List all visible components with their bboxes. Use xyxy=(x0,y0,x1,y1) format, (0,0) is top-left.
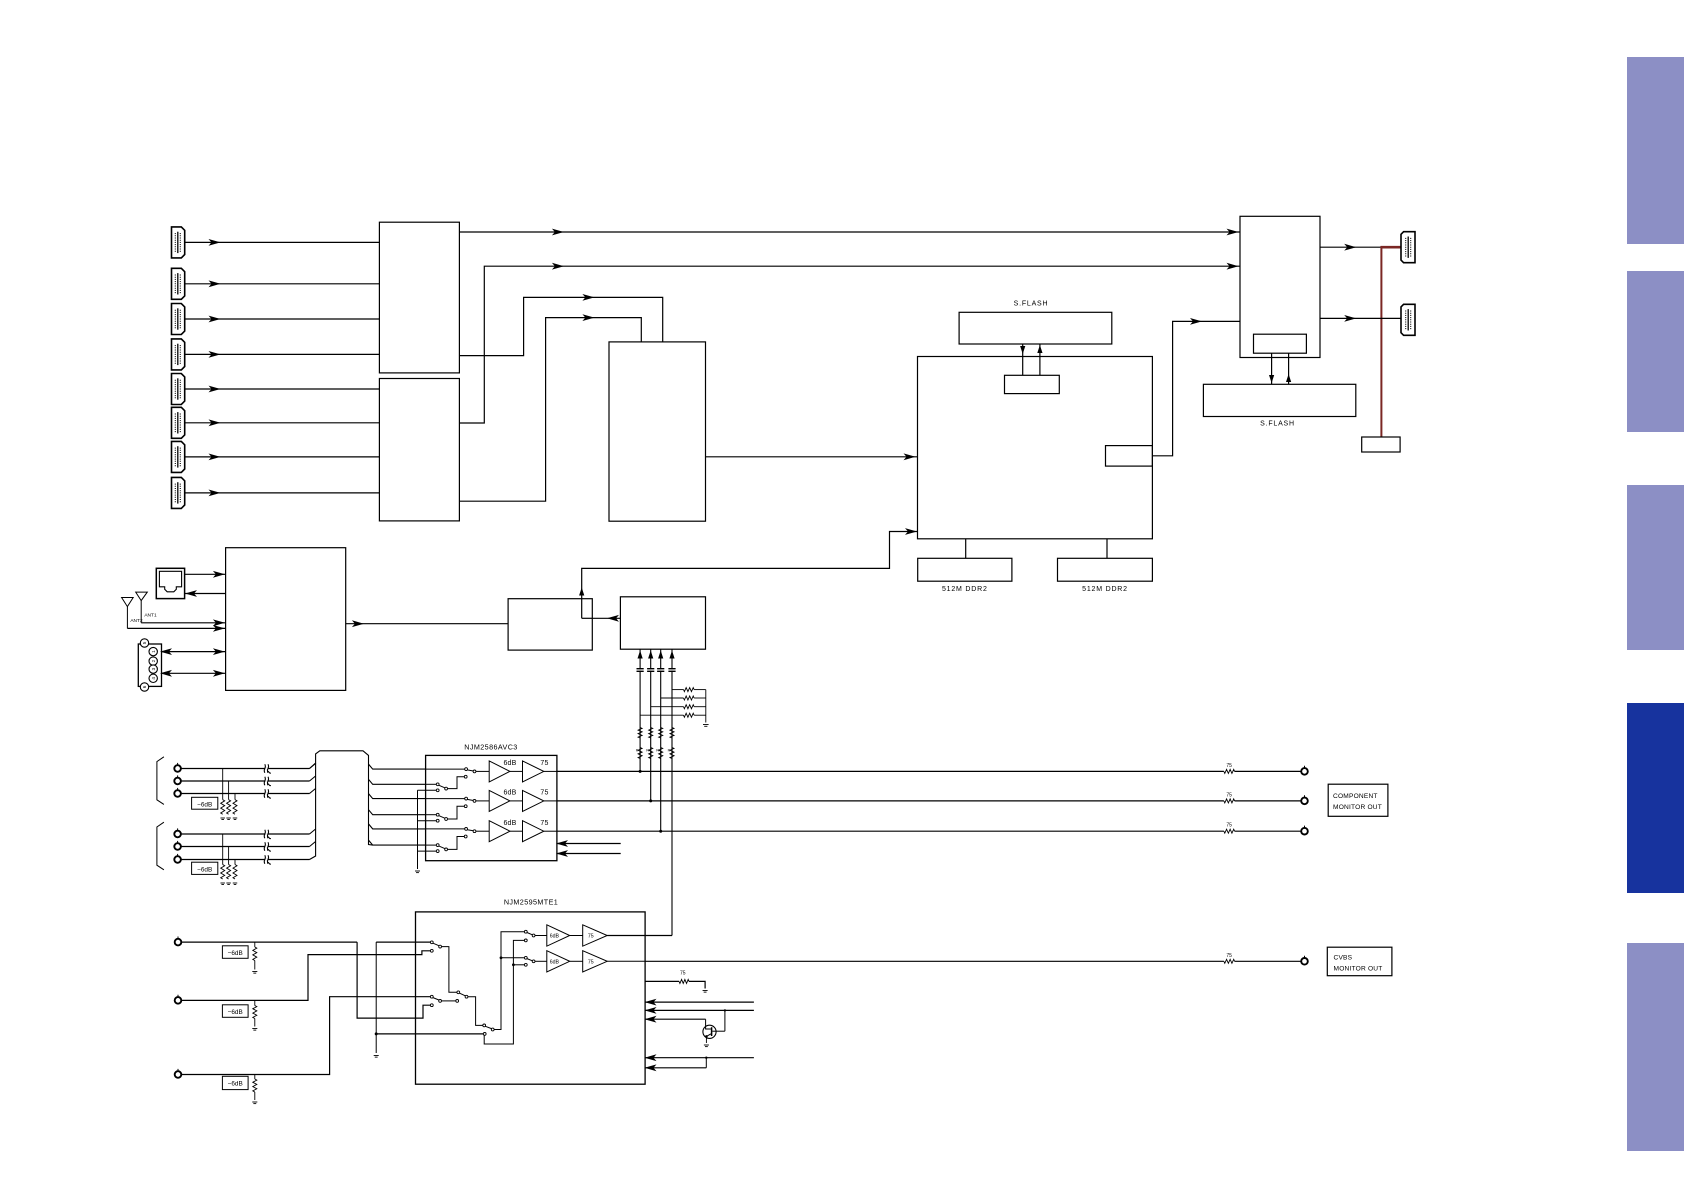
svg-text:NJM2586AVC3: NJM2586AVC3 xyxy=(464,743,517,752)
svg-text:2: 2 xyxy=(151,659,156,662)
svg-text:3: 3 xyxy=(151,667,156,670)
svg-text:75: 75 xyxy=(588,960,594,966)
svg-text:75: 75 xyxy=(588,934,594,940)
svg-text:512M DDR2: 512M DDR2 xyxy=(942,586,988,593)
svg-text:R: R xyxy=(668,749,671,753)
svg-text:−6dB: −6dB xyxy=(197,801,212,808)
svg-text:6dB: 6dB xyxy=(550,960,560,966)
svg-text:75: 75 xyxy=(1226,823,1232,829)
svg-text:5: 5 xyxy=(142,641,147,644)
svg-text:NJM2595MTE1: NJM2595MTE1 xyxy=(504,898,558,907)
svg-text:6dB: 6dB xyxy=(550,934,560,940)
svg-text:75: 75 xyxy=(680,971,686,977)
svg-text:ANT2: ANT2 xyxy=(130,618,143,624)
svg-text:−6dB: −6dB xyxy=(228,1009,243,1016)
svg-text:S.FLASH: S.FLASH xyxy=(1014,301,1049,308)
svg-text:75: 75 xyxy=(540,790,548,797)
svg-text:CVBS: CVBS xyxy=(1334,955,1353,962)
svg-text:1: 1 xyxy=(151,650,156,653)
svg-text:R: R xyxy=(656,749,659,753)
svg-text:6dB: 6dB xyxy=(503,820,516,827)
svg-text:COMPONENT: COMPONENT xyxy=(1333,793,1378,800)
svg-text:75: 75 xyxy=(540,820,548,827)
svg-text:75: 75 xyxy=(540,760,548,767)
svg-text:MONITOR OUT: MONITOR OUT xyxy=(1333,804,1382,811)
svg-text:−6dB: −6dB xyxy=(197,866,212,873)
svg-text:6dB: 6dB xyxy=(503,790,516,797)
svg-text:−6dB: −6dB xyxy=(228,950,243,957)
svg-text:S.FLASH: S.FLASH xyxy=(1260,421,1295,428)
svg-text:512M DDR2: 512M DDR2 xyxy=(1082,586,1128,593)
svg-text:MONITOR OUT: MONITOR OUT xyxy=(1334,966,1383,973)
svg-text:75: 75 xyxy=(1226,792,1232,798)
svg-text:6: 6 xyxy=(142,685,147,688)
svg-text:R: R xyxy=(646,749,649,753)
svg-text:−6dB: −6dB xyxy=(228,1081,243,1088)
svg-text:6dB: 6dB xyxy=(503,760,516,767)
svg-text:75: 75 xyxy=(1226,763,1232,769)
svg-text:R: R xyxy=(636,749,639,753)
svg-text:4: 4 xyxy=(151,677,156,680)
svg-text:ANT1: ANT1 xyxy=(144,613,157,619)
svg-text:75: 75 xyxy=(1226,953,1232,959)
